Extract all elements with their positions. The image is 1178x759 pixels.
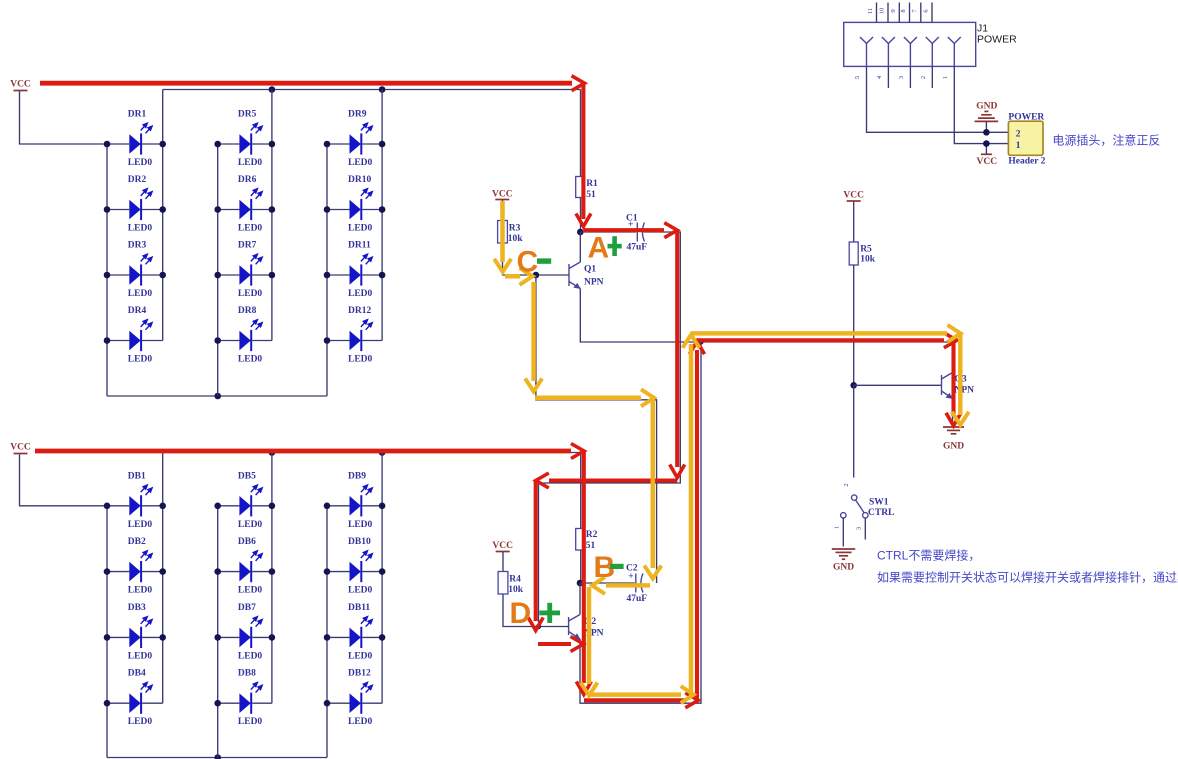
svg-text:A: A (588, 232, 610, 265)
svg-text:LED0: LED0 (348, 520, 373, 530)
svg-text:D: D (510, 597, 532, 630)
svg-text:LED0: LED0 (348, 289, 373, 299)
svg-text:DB7: DB7 (238, 603, 256, 613)
svg-text:2: 2 (1016, 130, 1021, 140)
wire: VCC feed to top LED bank (20, 91, 108, 144)
connector J1 contact 4 (882, 37, 895, 66)
svg-text:3: 3 (898, 76, 905, 79)
svg-text:VCC: VCC (977, 157, 998, 167)
wire: bottom bank anode bus (bottom) (107, 757, 327, 759)
svg-text:R5: R5 (860, 245, 872, 255)
LED DB6 (218, 537, 272, 596)
svg-text:Q1: Q1 (584, 265, 596, 275)
svg-text:DB4: DB4 (128, 669, 146, 679)
LED DB9 (327, 471, 382, 530)
wire: bottom bank column 3 right bus (381, 453, 383, 704)
wire: Q2 collector (579, 583, 581, 615)
wire: Q3 collector (952, 342, 954, 373)
svg-text:2: 2 (843, 483, 850, 486)
svg-text:POWER: POWER (977, 34, 1017, 46)
wire: Q1 collector (579, 232, 581, 262)
LED DB1 (107, 471, 163, 530)
wire: VCC to R3 (502, 200, 504, 221)
svg-text:Header 2: Header 2 (1008, 157, 1045, 167)
LED DB11 (327, 603, 382, 662)
wire: VCC to R4 (502, 552, 504, 572)
node: junction DB6 (214, 568, 221, 575)
svg-text:GND: GND (943, 442, 964, 452)
resistor R1 (576, 177, 585, 198)
wire: top bank anode bus (bottom) (107, 395, 327, 397)
resistor R4 10k (498, 572, 508, 595)
resistor R3 10k (498, 221, 508, 244)
node: junction DR12 (324, 337, 331, 344)
node: junction DB12 (324, 700, 331, 707)
LED DB4 (107, 669, 163, 728)
wire: yellow path node B emitter loop to Q3 and GND (587, 587, 592, 684)
svg-text:VCC: VCC (492, 190, 513, 200)
LED DB7 (218, 603, 272, 662)
wire: bottom bank column 2 right bus (271, 453, 273, 704)
svg-text:LED0: LED0 (238, 586, 263, 596)
svg-text:5: 5 (854, 76, 861, 79)
LED DB5 (218, 471, 272, 530)
svg-text:DR8: DR8 (238, 306, 257, 316)
svg-text:DR5: DR5 (238, 110, 257, 120)
svg-text:DB8: DB8 (238, 669, 256, 679)
svg-text:DB10: DB10 (348, 537, 371, 547)
svg-text:DR1: DR1 (128, 110, 147, 120)
svg-text:LED0: LED0 (128, 158, 153, 168)
node: junction DR4 (104, 337, 111, 344)
svg-text:10k: 10k (860, 255, 876, 265)
wire: red path VCC bottom rail through R2/Q2 loop to Q3 and GND (35, 449, 571, 454)
connector J1 POWER (844, 22, 1017, 66)
LED DB8 (218, 669, 272, 728)
svg-text:VCC: VCC (492, 541, 513, 551)
svg-text:8: 8 (900, 9, 907, 12)
svg-text:NPN: NPN (955, 386, 975, 396)
node: junction DR3 (104, 272, 111, 279)
svg-text:47uF: 47uF (627, 594, 648, 604)
wire: red path VCC top rail to R1 (40, 81, 572, 86)
svg-text:+: + (628, 572, 633, 582)
ground symbol at Q3 (943, 427, 964, 452)
svg-text:DR4: DR4 (128, 306, 147, 316)
node: junction DB2 (104, 568, 111, 575)
svg-text:DB2: DB2 (128, 537, 146, 547)
svg-text:LED0: LED0 (238, 289, 263, 299)
wire: red path node A through C1 down-left-down to node D (583, 228, 664, 232)
node: junction DR11 (324, 272, 331, 279)
svg-text:DB3: DB3 (128, 603, 146, 613)
svg-text:LED0: LED0 (348, 355, 373, 365)
node: junction DR8 (214, 337, 221, 344)
wire: top bank column 1 left bus (106, 144, 108, 396)
node: emitter junction (698, 339, 703, 344)
wire: bottom bank column 2 left bus (217, 506, 219, 758)
wire: Q2 emitter loop to emitter junction (580, 342, 701, 703)
connector J1 contact 3 (904, 37, 917, 66)
wire: R4 to Q2 base (503, 594, 569, 627)
LED DR5 (218, 110, 272, 169)
svg-text:DR2: DR2 (128, 175, 147, 185)
svg-text:LED0: LED0 (238, 224, 263, 234)
wire: J1 pin5 to header pin2 (GND net) (867, 66, 1009, 132)
connector J1 contact 5 (860, 37, 873, 66)
wire: top bank column 1 right bus (162, 90, 164, 341)
svg-text:DR7: DR7 (238, 241, 257, 251)
svg-text:VCC: VCC (10, 80, 31, 90)
wire: base junction to Q3 (854, 384, 942, 386)
capacitor C2 47uF (626, 564, 647, 605)
wire: Q1 base to C2 (via down/right) (536, 275, 657, 583)
connector J1 bottom pin 3 (898, 66, 911, 88)
node D (Q2 base) (536, 624, 541, 629)
connector J1 top pin 7 (911, 3, 921, 23)
svg-text:SW1: SW1 (869, 498, 889, 508)
node A (Q1 collector) (577, 229, 584, 236)
svg-text:LED0: LED0 (348, 586, 373, 596)
svg-text:POWER: POWER (1008, 112, 1044, 122)
svg-text:LED0: LED0 (348, 717, 373, 727)
wire: Q3 emitter to GND (952, 399, 954, 427)
node: junction DB10 (324, 568, 331, 575)
connector J1 top pin 9 (890, 3, 900, 23)
transistor Q1 NPN (569, 262, 604, 289)
svg-text:LED0: LED0 (128, 717, 153, 727)
svg-text:LED0: LED0 (128, 224, 153, 234)
LED DR10 (327, 175, 382, 234)
node: junction dots on top bank cathode bus (269, 86, 276, 93)
svg-text:LED0: LED0 (238, 355, 263, 365)
svg-text:1: 1 (1016, 141, 1021, 151)
wire: R2 to node B (580, 550, 582, 583)
node C (Q1 base) (533, 272, 540, 279)
svg-text:DR3: DR3 (128, 241, 147, 251)
svg-text:47uF: 47uF (627, 243, 648, 253)
svg-text:1: 1 (942, 76, 949, 79)
node: junction DR2 (104, 206, 111, 213)
svg-text:DR11: DR11 (348, 241, 371, 251)
svg-text:LED0: LED0 (238, 158, 263, 168)
svg-text:LED0: LED0 (128, 586, 153, 596)
connector J1 contact 2 (926, 37, 939, 66)
wire: J1 pin1 to header pin1 (VCC net) (954, 66, 1008, 143)
svg-text:电源插头，注意正反: 电源插头，注意正反 (1052, 133, 1160, 148)
svg-text:DR12: DR12 (348, 306, 371, 316)
LED DR4 (107, 306, 163, 365)
wire: bottom bank cathode bus (top) (163, 452, 581, 454)
wire: R3 to Q1 base (503, 243, 570, 275)
wire: node A to C1 left plate (580, 231, 636, 233)
node: junction DR1 (104, 141, 111, 148)
wire: yellow path VCC to R3 to node C (500, 201, 505, 262)
svg-text:LED0: LED0 (348, 224, 373, 234)
svg-text:10k: 10k (508, 585, 524, 595)
header P1 (Header 2) (1008, 112, 1045, 166)
connector J1 top pin 10 (879, 3, 889, 23)
LED DR8 (218, 306, 272, 365)
LED DB12 (327, 669, 382, 728)
LED DB2 (107, 537, 163, 596)
svg-text:51: 51 (586, 190, 596, 200)
VCC power symbol below header (977, 144, 998, 167)
LED DB10 (327, 537, 382, 596)
svg-text:LED0: LED0 (238, 717, 263, 727)
svg-text:10k: 10k (508, 234, 524, 244)
node B (Q2 collector) (577, 580, 584, 587)
svg-text:DB5: DB5 (238, 471, 256, 481)
svg-text:R3: R3 (509, 224, 521, 234)
svg-text:LED0: LED0 (128, 520, 153, 530)
wire: Q1 emitter down and right (580, 289, 952, 343)
node: junction DR6 (214, 206, 221, 213)
svg-text:DB9: DB9 (348, 471, 366, 481)
node: junction DB7 (214, 634, 221, 641)
wire: top bank column 3 right bus (381, 90, 383, 341)
svg-text:VCC: VCC (843, 191, 864, 201)
svg-text:R1: R1 (586, 179, 598, 189)
wire: top cathode bus to R1 (580, 90, 582, 177)
ground symbol below SW1 (832, 549, 855, 573)
svg-text:DR9: DR9 (348, 110, 367, 120)
svg-text:R4: R4 (509, 575, 521, 585)
wire: node B to C2 left plate (580, 582, 635, 584)
node: GND tap junction (983, 129, 990, 136)
svg-text:51: 51 (586, 541, 596, 551)
connector J1 top pin 8 (900, 3, 910, 23)
connector J1 contact 1 (948, 37, 961, 66)
svg-text:NPN: NPN (584, 278, 604, 288)
svg-text:CTRL不需要焊接，: CTRL不需要焊接， (877, 548, 980, 563)
wire: bottom cathode bus to R2 (580, 453, 582, 529)
svg-text:VCC: VCC (10, 443, 31, 453)
LED DR6 (218, 175, 272, 234)
wire: top bank column 2 left bus (217, 144, 219, 396)
svg-text:DB1: DB1 (128, 471, 146, 481)
svg-text:LED0: LED0 (238, 651, 263, 661)
LED DR11 (327, 241, 382, 300)
svg-text:11: 11 (867, 8, 874, 14)
svg-text:LED0: LED0 (348, 651, 373, 661)
wire: base junction down to SW1 (853, 385, 855, 477)
svg-text:GND: GND (976, 102, 997, 112)
wire: VCC feed to bottom LED bank (20, 454, 108, 506)
resistor R5 10k (849, 242, 858, 265)
node: junction DR10 (324, 206, 331, 213)
svg-text:LED0: LED0 (348, 158, 373, 168)
svg-text:LED0: LED0 (128, 355, 153, 365)
connector J1 bottom pin 4 (876, 66, 889, 88)
svg-text:10: 10 (879, 8, 886, 15)
node: junction DB8 (214, 700, 221, 707)
transistor Q3 NPN (942, 373, 975, 400)
node: VCC tap junction (983, 140, 990, 147)
transistor Q2 NPN (569, 615, 604, 640)
LED DR2 (107, 175, 163, 234)
wire: top bank cathode bus (top) (163, 89, 581, 91)
node: Q3 base junction (850, 382, 857, 389)
node: junction DB1 (104, 503, 111, 510)
node: junction DB9 (324, 503, 331, 510)
svg-text:GND: GND (833, 563, 854, 573)
wire: bottom bank column 1 right bus (162, 453, 164, 704)
svg-text:R2: R2 (586, 530, 598, 540)
wire: VCC to R5 (853, 202, 855, 243)
LED DR1 (107, 110, 163, 169)
svg-text:DR6: DR6 (238, 175, 257, 185)
svg-text:1: 1 (834, 526, 841, 529)
svg-text:LED0: LED0 (128, 289, 153, 299)
resistor R2 (576, 529, 585, 551)
svg-text:2: 2 (920, 76, 927, 79)
switch SW1 CTRL (834, 483, 895, 546)
svg-text:如果需要控制开关状态可以焊接开关或者焊接排针，通过其他遥控: 如果需要控制开关状态可以焊接开关或者焊接排针，通过其他遥控 (877, 570, 1178, 585)
connector J1 bottom pin 2 (920, 66, 933, 88)
wire: R1 to node A (580, 198, 582, 233)
LED DB3 (107, 603, 163, 662)
svg-text:DB12: DB12 (348, 669, 371, 679)
connector J1 top pin 11 (867, 3, 877, 23)
svg-text:LED0: LED0 (128, 651, 153, 661)
node: junction DR5 (214, 141, 221, 148)
svg-text:9: 9 (890, 9, 897, 12)
svg-text:DB11: DB11 (348, 603, 370, 613)
wire: R5 to base node (853, 265, 855, 385)
ground symbol above header (975, 102, 999, 133)
LED DR12 (327, 306, 382, 365)
connector J1 bottom pin 1 (942, 76, 949, 79)
node: junction DB3 (104, 634, 111, 641)
wire: yellow path node C down through C2 to node B (531, 282, 536, 381)
LED DR9 (327, 110, 382, 169)
svg-text:DR10: DR10 (348, 175, 371, 185)
svg-text:DB6: DB6 (238, 537, 256, 547)
wire: bottom bank column 1 left bus (106, 506, 108, 758)
node: junction DB4 (104, 700, 111, 707)
svg-text:3: 3 (855, 527, 862, 530)
wire: C1 right plate down to node D (539, 232, 681, 627)
LED DR7 (218, 241, 272, 300)
connector J1 bottom pin 5 (854, 76, 861, 79)
node: junction DB11 (324, 634, 331, 641)
wire: top bank column 2 right bus (271, 90, 273, 341)
svg-text:LED0: LED0 (238, 520, 263, 530)
svg-text:CTRL: CTRL (868, 508, 894, 518)
node: junction DR7 (214, 272, 221, 279)
connector J1 top pin 6 (923, 3, 933, 23)
node: junction DB5 (214, 503, 221, 510)
node: junction DR9 (324, 141, 331, 148)
wire: bottom bank column 3 left bus (326, 506, 328, 758)
wire: top bank column 3 left bus (326, 144, 328, 396)
capacitor C1 47uF (626, 214, 647, 253)
svg-text:C: C (517, 246, 539, 279)
node: junction dots on bottom bank cathode bus (269, 449, 276, 456)
LED DR3 (107, 241, 163, 300)
